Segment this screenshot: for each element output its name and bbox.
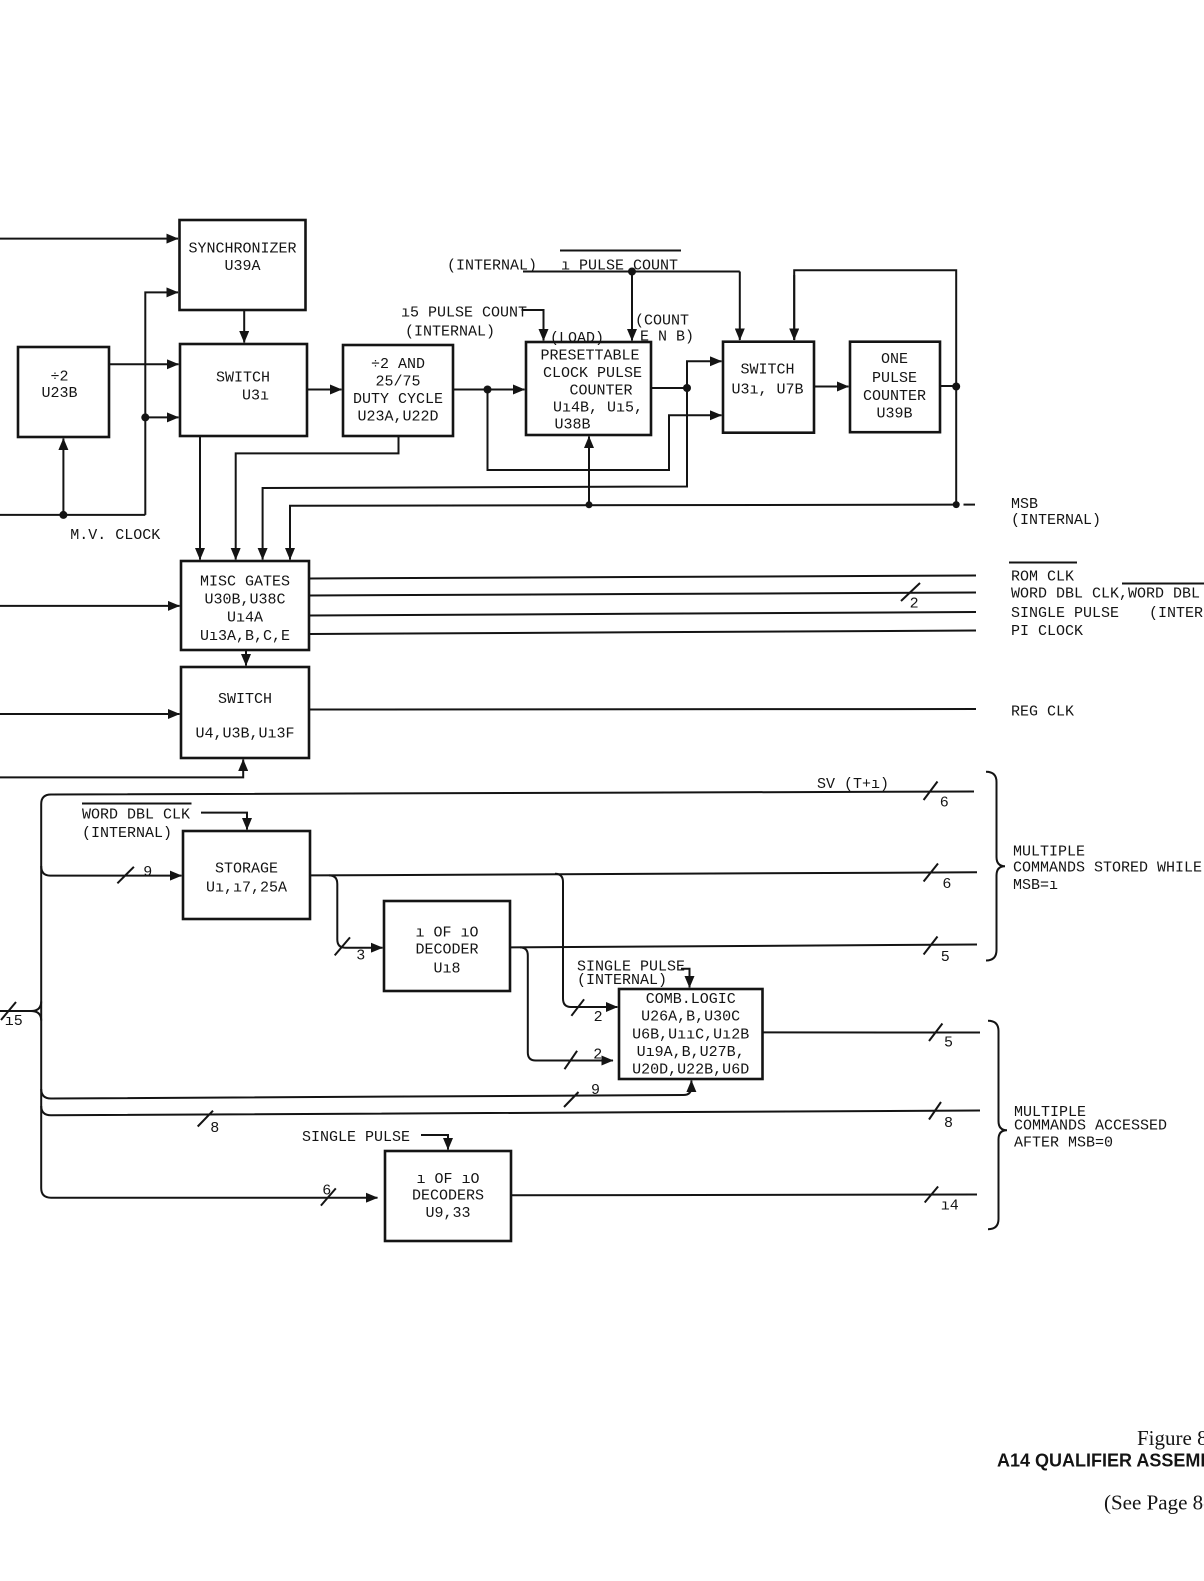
svg-text:AFTER MSB=0: AFTER MSB=0	[1014, 1135, 1113, 1152]
svg-text:DECODER: DECODER	[415, 942, 478, 959]
svg-text:ı5 PULSE COUNT: ı5 PULSE COUNT	[401, 305, 527, 322]
svg-text:M.V. CLOCK: M.V. CLOCK	[70, 527, 160, 544]
svg-text:3: 3	[356, 948, 365, 965]
svg-text:DUTY CYCLE: DUTY CYCLE	[353, 391, 443, 408]
svg-text:÷2: ÷2	[50, 369, 68, 386]
svg-text:A14 QUALIFIER ASSEMBLY: A14 QUALIFIER ASSEMBLY	[997, 1451, 1204, 1471]
svg-text:SINGLE PULSE: SINGLE PULSE	[1011, 605, 1119, 622]
svg-text:9: 9	[143, 864, 152, 881]
svg-text:Uı4A: Uı4A	[227, 610, 263, 627]
svg-text:Uı8: Uı8	[433, 961, 460, 978]
svg-text:U23A,U22D: U23A,U22D	[357, 409, 438, 426]
svg-text:U39A: U39A	[224, 258, 260, 275]
svg-text:25/75: 25/75	[375, 374, 420, 391]
svg-text:9: 9	[591, 1082, 600, 1099]
svg-text:(INTERNAL): (INTERNAL)	[1149, 605, 1204, 622]
svg-text:8: 8	[944, 1115, 953, 1132]
svg-text:ı PULSE COUNT: ı PULSE COUNT	[561, 258, 678, 275]
svg-text:6: 6	[942, 876, 951, 893]
svg-text:(INTERNAL): (INTERNAL)	[577, 972, 667, 989]
svg-text:6: 6	[940, 795, 949, 812]
svg-text:Uı3A,B,C,E: Uı3A,B,C,E	[200, 628, 290, 645]
svg-text:WORD DBL CLK: WORD DBL CLK	[82, 807, 190, 824]
svg-text:Uı9A,B,U27B,: Uı9A,B,U27B,	[637, 1044, 745, 1061]
svg-text:SWITCH: SWITCH	[216, 370, 270, 387]
svg-text:5: 5	[941, 949, 950, 966]
svg-text:ı OF ıO: ı OF ıO	[415, 925, 478, 942]
svg-text:COMMANDS ACCESSED: COMMANDS ACCESSED	[1014, 1118, 1167, 1135]
svg-text:MULTIPLE: MULTIPLE	[1013, 844, 1085, 861]
svg-text:8: 8	[210, 1120, 219, 1137]
svg-text:Figure 8-1: Figure 8-1	[1137, 1426, 1204, 1450]
svg-text:6: 6	[322, 1183, 331, 1200]
svg-text:ONE: ONE	[881, 351, 908, 368]
svg-text:SYNCHRONIZER: SYNCHRONIZER	[188, 241, 296, 258]
svg-text:Uı4B, Uı5,: Uı4B, Uı5,	[553, 400, 643, 417]
svg-text:PI CLOCK: PI CLOCK	[1011, 623, 1083, 640]
svg-text:U20D,U22B,U6D: U20D,U22B,U6D	[632, 1062, 749, 1079]
svg-text:2: 2	[910, 596, 919, 613]
svg-text:COUNTER: COUNTER	[570, 383, 633, 400]
svg-text:STORAGE: STORAGE	[215, 861, 278, 878]
svg-text:ı OF ıO: ı OF ıO	[416, 1171, 479, 1188]
svg-text:COUNTER: COUNTER	[863, 388, 926, 405]
svg-text:U4,U3B,Uı3F: U4,U3B,Uı3F	[195, 726, 294, 743]
svg-text:2: 2	[593, 1047, 602, 1064]
svg-text:WORD DBL CLK,WORD DBL: WORD DBL CLK,WORD DBL	[1011, 586, 1200, 603]
svg-text:ı5: ı5	[5, 1013, 23, 1030]
svg-text:÷2 AND: ÷2 AND	[371, 356, 425, 373]
svg-text:(See Page 8-2: (See Page 8-2	[1104, 1491, 1204, 1515]
svg-text:E N B): E N B)	[640, 329, 694, 346]
svg-text:MSB: MSB	[1011, 496, 1038, 513]
svg-text:PRESETTABLE: PRESETTABLE	[541, 348, 640, 365]
svg-text:U30B,U38C: U30B,U38C	[204, 592, 285, 609]
svg-text:(INTERNAL): (INTERNAL)	[447, 258, 537, 275]
svg-text:U9,33: U9,33	[425, 1205, 470, 1222]
svg-text:ROM CLK: ROM CLK	[1011, 569, 1074, 586]
svg-text:(COUNT: (COUNT	[635, 313, 689, 330]
svg-text:CLOCK PULSE: CLOCK PULSE	[543, 365, 642, 382]
svg-text:COMMANDS STORED WHILE: COMMANDS STORED WHILE	[1013, 860, 1202, 877]
svg-text:MISC GATES: MISC GATES	[200, 574, 290, 591]
svg-text:U6B,UııC,Uı2B: U6B,UııC,Uı2B	[632, 1027, 749, 1044]
svg-text:Uı,ı7,25A: Uı,ı7,25A	[206, 880, 287, 897]
svg-text:2: 2	[594, 1009, 603, 1026]
svg-text:ı4: ı4	[941, 1198, 959, 1215]
svg-text:U3ı, U7B: U3ı, U7B	[731, 382, 803, 399]
svg-text:(INTERNAL): (INTERNAL)	[82, 825, 172, 842]
svg-text:5: 5	[944, 1035, 953, 1052]
svg-text:SWITCH: SWITCH	[740, 362, 794, 379]
svg-text:U23B: U23B	[41, 385, 77, 402]
svg-text:REG CLK: REG CLK	[1011, 704, 1074, 721]
svg-text:SV (T+ı): SV (T+ı)	[817, 776, 889, 793]
svg-text:U38B: U38B	[555, 417, 591, 434]
svg-text:SWITCH: SWITCH	[218, 691, 272, 708]
svg-text:(LOAD): (LOAD)	[550, 330, 604, 347]
svg-text:DECODERS: DECODERS	[412, 1188, 484, 1205]
svg-text:PULSE: PULSE	[872, 370, 917, 387]
svg-text:U39B: U39B	[876, 406, 912, 423]
svg-text:(INTERNAL): (INTERNAL)	[405, 324, 495, 341]
svg-text:U3ı: U3ı	[242, 388, 269, 405]
svg-text:U26A,B,U30C: U26A,B,U30C	[641, 1009, 740, 1026]
svg-text:MSB=ı: MSB=ı	[1013, 877, 1058, 894]
svg-text:COMB.LOGIC: COMB.LOGIC	[646, 991, 736, 1008]
svg-text:(INTERNAL): (INTERNAL)	[1011, 512, 1101, 529]
svg-text:SINGLE PULSE: SINGLE PULSE	[302, 1129, 410, 1146]
